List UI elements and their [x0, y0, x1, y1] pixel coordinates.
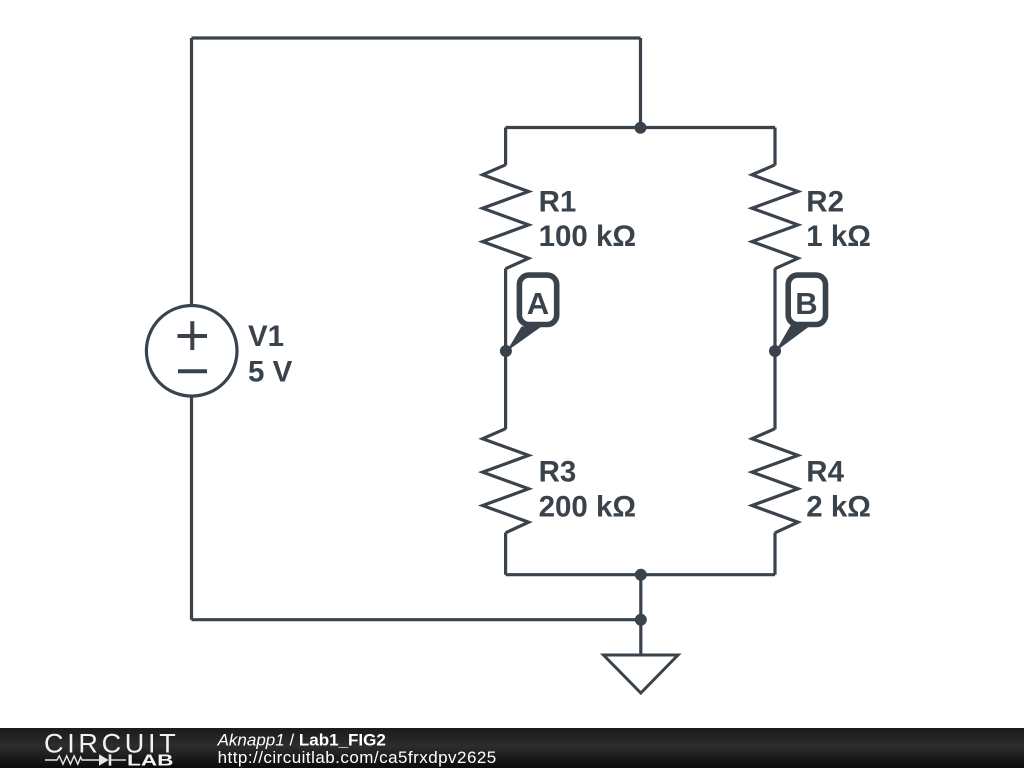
ground symbol — [604, 655, 679, 693]
V1 minus sign — [178, 369, 207, 373]
svg-text:1 kΩ: 1 kΩ — [806, 220, 871, 253]
flag A pointer tail — [507, 327, 542, 352]
svg-text:200 kΩ: 200 kΩ — [539, 490, 636, 523]
logo resistor-diode glyph — [45, 756, 126, 764]
wire bottom rail between R3 and R4 — [506, 573, 775, 576]
resistor R4 zigzag — [752, 429, 798, 533]
svg-text:5 V: 5 V — [248, 355, 293, 388]
wire node B to R4 — [773, 351, 776, 429]
svg-text:R4: R4 — [806, 455, 844, 488]
svg-text:R3: R3 — [539, 455, 577, 488]
wire R2 to node B — [773, 269, 776, 352]
svg-text:100 kΩ: 100 kΩ — [539, 220, 636, 253]
flag B outline — [788, 275, 825, 324]
node junction bottom rail — [635, 569, 647, 581]
logo diode symbol — [99, 754, 111, 765]
svg-text:R2: R2 — [806, 186, 844, 219]
wire lead into R1 — [504, 128, 507, 166]
svg-text:LAB: LAB — [127, 753, 174, 768]
flag B pointer tail — [776, 326, 811, 352]
node junction ground — [635, 614, 647, 626]
voltage source V1 circle — [146, 306, 237, 397]
wire top rail between R1 and R2 branches — [506, 126, 775, 129]
resistor R3 zigzag — [483, 429, 529, 533]
wire R4 to bottom rail — [773, 533, 776, 575]
resistor R2 zigzag — [752, 165, 798, 269]
wire bottom return to V1 — [192, 618, 641, 621]
svg-text:Aknapp1 / Lab1_FIG2: Aknapp1 / Lab1_FIG2 — [217, 731, 386, 750]
wire lead into R2 — [773, 128, 776, 166]
svg-text:http://circuitlab.com/ca5frxdp: http://circuitlab.com/ca5frxdpv2625 — [218, 748, 497, 767]
wire bottom junction drop — [639, 575, 642, 620]
V1 plus sign — [178, 321, 208, 350]
wire node A to R3 — [504, 351, 507, 429]
resistor R1 zigzag — [483, 165, 529, 269]
svg-text:B: B — [795, 286, 817, 321]
footer bar — [0, 728, 1024, 768]
wire top horizontal from V1 to top junction — [192, 36, 641, 39]
wire R3 to bottom rail — [504, 533, 507, 575]
wire ground stub — [639, 620, 642, 655]
node B junction — [769, 345, 781, 357]
wire R1 to node A — [504, 269, 507, 352]
node junction top — [635, 122, 647, 134]
svg-text:R1: R1 — [539, 186, 577, 219]
flag A outline — [519, 275, 556, 324]
svg-text:2 kΩ: 2 kΩ — [806, 490, 871, 523]
wire drop from top wire to junction node — [639, 38, 642, 128]
node A junction — [500, 345, 512, 357]
wire V1 positive lead up — [190, 38, 193, 306]
svg-text:A: A — [527, 286, 549, 321]
svg-text:V1: V1 — [248, 320, 284, 353]
wire V1 negative lead down — [190, 396, 193, 620]
